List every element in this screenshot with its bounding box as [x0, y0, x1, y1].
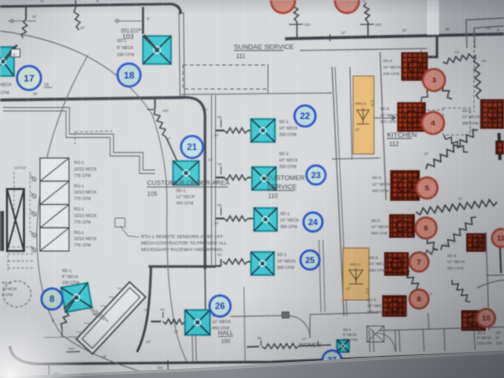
- svg-text:775 CFM: 775 CFM: [74, 243, 91, 248]
- svg-text:JVD: JVD: [162, 109, 169, 113]
- svg-text:0 CFM: 0 CFM: [2, 293, 13, 297]
- svg-text:24: 24: [308, 217, 318, 227]
- svg-text:16": 16": [402, 29, 408, 33]
- svg-text:112: 112: [389, 141, 399, 148]
- svg-text:SD-5: SD-5: [371, 218, 381, 223]
- svg-text:8" NECK: 8" NECK: [343, 333, 358, 337]
- svg-text:3: 3: [432, 76, 436, 85]
- svg-text:17: 17: [24, 73, 35, 84]
- svg-text:SD-6: SD-6: [447, 253, 457, 258]
- svg-text:350 CFM: 350 CFM: [447, 265, 463, 270]
- svg-text:10" NECK: 10" NECK: [279, 125, 298, 130]
- svg-text:150 CFM: 150 CFM: [117, 52, 135, 57]
- svg-text:125: 125: [496, 341, 502, 345]
- svg-text:16": 16": [203, 108, 209, 112]
- svg-text:350 CFM: 350 CFM: [462, 120, 478, 125]
- svg-text:SD-5: SD-5: [369, 255, 379, 260]
- svg-text:12": 12": [470, 128, 475, 132]
- svg-text:8: 8: [49, 294, 54, 304]
- svg-text:21: 21: [187, 142, 197, 152]
- svg-text:22/22 NECK: 22/22 NECK: [74, 190, 97, 195]
- svg-text:103: 103: [122, 34, 134, 41]
- svg-text:12" NECK: 12" NECK: [447, 259, 465, 264]
- svg-text:12" NECK: 12" NECK: [372, 182, 390, 187]
- svg-text:YD: YD: [257, 337, 262, 341]
- svg-text:DRY STOR: DRY STOR: [121, 27, 142, 32]
- svg-text:14": 14": [16, 357, 21, 361]
- svg-text:18": 18": [102, 355, 107, 359]
- svg-text:YD: YD: [217, 163, 222, 167]
- svg-text:PRV-3: PRV-3: [355, 102, 366, 106]
- svg-text:15": 15": [32, 15, 37, 19]
- svg-text:350 CFM: 350 CFM: [279, 164, 297, 169]
- svg-text:5'-3": 5'-3": [370, 100, 374, 107]
- svg-text:12" NECK: 12" NECK: [380, 113, 398, 118]
- svg-text:10" NECK: 10" NECK: [369, 261, 387, 266]
- svg-text:375 CFM: 375 CFM: [380, 119, 396, 124]
- svg-text:10" NECK: 10" NECK: [367, 303, 385, 308]
- svg-text:10": 10": [444, 243, 449, 247]
- svg-text:22: 22: [300, 111, 310, 121]
- svg-text:10" NECK: 10" NECK: [277, 258, 296, 263]
- svg-text:10" NECK: 10" NECK: [280, 217, 299, 222]
- svg-text:125 CFM: 125 CFM: [343, 338, 357, 342]
- svg-text:12": 12": [362, 0, 367, 3]
- svg-text:22/22 NECK: 22/22 NECK: [74, 236, 97, 241]
- svg-text:8: 8: [417, 295, 421, 304]
- svg-text:22/22 NECK: 22/22 NECK: [74, 166, 97, 171]
- svg-text:SD: SD: [496, 331, 501, 335]
- svg-text:SD-1: SD-1: [279, 151, 289, 156]
- svg-text:SUNDAE SERVICE: SUNDAE SERVICE: [234, 44, 294, 51]
- svg-text:NECESSARY RACEWAY AND WIRING.: NECESSARY RACEWAY AND WIRING.: [141, 247, 223, 252]
- svg-text:26: 26: [215, 301, 225, 311]
- svg-text:7: 7: [417, 258, 421, 267]
- svg-text:15: 15: [44, 82, 49, 87]
- svg-text:WOMEN: WOMEN: [299, 343, 321, 349]
- svg-text:RG-1: RG-1: [74, 230, 85, 235]
- svg-text:PRV-2: PRV-2: [350, 263, 361, 267]
- svg-text:25: 25: [305, 255, 315, 265]
- svg-text:SD-1: SD-1: [277, 252, 287, 257]
- svg-text:10": 10": [214, 134, 219, 138]
- svg-text:10" NECK: 10" NECK: [383, 65, 401, 70]
- svg-text:NO: NO: [455, 50, 460, 54]
- svg-text:150 CFM: 150 CFM: [62, 280, 80, 285]
- svg-text:775 CFM: 775 CFM: [74, 219, 91, 224]
- svg-text:YD: YD: [160, 308, 165, 312]
- svg-text:SD-5: SD-5: [372, 175, 382, 180]
- svg-text:SD-5: SD-5: [383, 58, 393, 63]
- svg-text:110: 110: [268, 193, 278, 200]
- svg-text:YD: YD: [217, 116, 222, 120]
- svg-text:RG-9: RG-9: [2, 281, 11, 285]
- svg-text:12" NECK: 12" NECK: [176, 194, 195, 199]
- svg-text:775 CFM: 775 CFM: [74, 196, 91, 201]
- svg-text:10: 10: [482, 314, 490, 323]
- svg-text:NO: NO: [482, 59, 487, 63]
- svg-text:11°: 11°: [346, 287, 352, 291]
- svg-text:SD-5: SD-5: [380, 106, 390, 111]
- svg-text:14": 14": [146, 340, 151, 344]
- svg-text:10": 10": [40, 0, 45, 3]
- svg-text:JVD: JVD: [68, 347, 75, 351]
- svg-text:KITCHEN: KITCHEN: [387, 132, 417, 139]
- svg-text:350 CFM: 350 CFM: [277, 265, 295, 270]
- svg-text:23: 23: [311, 170, 321, 180]
- svg-text:SD-1: SD-1: [280, 211, 290, 216]
- svg-text:RG-1: RG-1: [74, 160, 85, 165]
- svg-text:12": 12": [424, 152, 429, 156]
- svg-text:125 CFM: 125 CFM: [477, 341, 492, 345]
- svg-text:6": 6": [430, 292, 433, 296]
- svg-text:8" NECK: 8" NECK: [117, 45, 134, 50]
- svg-text:YD: YD: [217, 204, 222, 208]
- svg-text:12" NECK: 12" NECK: [371, 224, 389, 229]
- svg-text:SERVICE: SERVICE: [267, 184, 297, 191]
- svg-text:22 NECK: 22 NECK: [2, 287, 18, 291]
- svg-text:SD-1: SD-1: [279, 119, 289, 124]
- svg-text:10": 10": [214, 222, 219, 226]
- svg-text:350 CFM: 350 CFM: [280, 224, 298, 229]
- svg-text:18: 18: [124, 70, 135, 81]
- svg-text:12'X12': 12'X12': [14, 166, 27, 170]
- svg-text:14": 14": [208, 158, 214, 162]
- svg-text:CUSTOMER ORDER AREA: CUSTOMER ORDER AREA: [147, 180, 230, 187]
- svg-text:350 CFM: 350 CFM: [279, 132, 297, 137]
- svg-text:450 CFM: 450 CFM: [176, 200, 194, 205]
- svg-text:SD-1: SD-1: [176, 188, 186, 193]
- svg-text:CUSTOMER: CUSTOMER: [266, 175, 305, 182]
- svg-text:RTU-1 REMOTE SENSORS AT 56" AF: RTU-1 REMOTE SENSORS AT 56" AFF.: [141, 234, 224, 239]
- svg-text:SD-1: SD-1: [62, 268, 72, 273]
- svg-text:CFM: CFM: [0, 90, 10, 95]
- svg-text:400 CFM: 400 CFM: [371, 230, 387, 235]
- svg-text:22/22 NECK: 22/22 NECK: [74, 213, 97, 218]
- svg-text:8": 8": [147, 17, 150, 21]
- svg-text:MECH CONTRACTOR TO PROVIDE ALL: MECH CONTRACTOR TO PROVIDE ALL: [141, 241, 227, 246]
- svg-text:250 CFM: 250 CFM: [369, 267, 385, 272]
- svg-text:SD-3: SD-3: [477, 331, 485, 335]
- svg-text:12" NECK: 12" NECK: [212, 319, 231, 324]
- svg-text:105: 105: [147, 191, 158, 198]
- svg-text:12" NECK: 12" NECK: [462, 114, 480, 119]
- svg-text:10": 10": [144, 308, 149, 312]
- svg-text:11: 11: [497, 234, 504, 243]
- svg-text:W: W: [96, 0, 99, 3]
- svg-text:12": 12": [174, 330, 179, 334]
- svg-text:100: 100: [221, 339, 230, 345]
- svg-text:20": 20": [486, 27, 492, 31]
- svg-text:6: 6: [424, 224, 428, 233]
- svg-text:58": 58": [33, 92, 39, 96]
- svg-text:18": 18": [445, 28, 451, 32]
- svg-text:JVD: JVD: [157, 366, 164, 370]
- svg-text:8" NECK: 8" NECK: [477, 336, 492, 340]
- svg-text:SD-5: SD-5: [367, 297, 377, 302]
- svg-text:8" NECK: 8" NECK: [62, 274, 79, 279]
- svg-text:SD-4: SD-4: [343, 328, 351, 332]
- svg-text:111: 111: [236, 53, 246, 60]
- svg-text:275 CFM: 275 CFM: [367, 309, 383, 314]
- svg-text:JVD: JVD: [304, 23, 311, 27]
- svg-text:NECK: NECK: [0, 82, 12, 87]
- svg-text:12": 12": [458, 197, 463, 201]
- svg-text:12": 12": [341, 31, 347, 35]
- svg-text:775 CFM: 775 CFM: [74, 173, 91, 178]
- svg-text:HALL: HALL: [218, 330, 234, 337]
- svg-text:P: P: [497, 28, 500, 33]
- svg-text:8": 8": [52, 319, 55, 323]
- svg-text:4'-0": 4'-0": [365, 288, 369, 295]
- svg-text:YD: YD: [217, 253, 222, 257]
- svg-text:200 CFM: 200 CFM: [383, 71, 399, 76]
- svg-text:RG-1: RG-1: [74, 183, 85, 188]
- svg-text:12": 12": [452, 240, 456, 244]
- svg-text:SD-5: SD-5: [462, 108, 472, 113]
- svg-text:JVD: JVD: [375, 23, 382, 27]
- svg-text:10": 10": [302, 337, 306, 341]
- svg-text:RG-1: RG-1: [74, 207, 85, 212]
- svg-text:11°: 11°: [355, 128, 361, 132]
- svg-text:10" NECK: 10" NECK: [279, 157, 298, 162]
- svg-text:400 CFM: 400 CFM: [372, 188, 388, 193]
- svg-text:5: 5: [425, 184, 429, 193]
- svg-text:18": 18": [80, 26, 85, 30]
